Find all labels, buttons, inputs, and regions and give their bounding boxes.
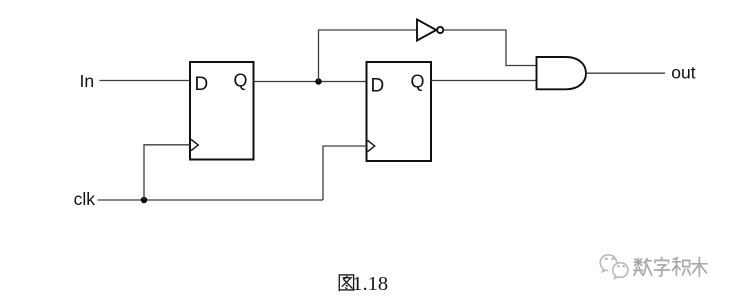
inverter U3 bubble [437, 27, 443, 33]
D flip-flop U2 [367, 62, 432, 161]
wire: U1 Q to U2 D [254, 81, 367, 83]
wire: clk junction up to U1 clock pin [144, 145, 190, 200]
char 数 [637, 259, 639, 267]
node: junction dot on Q1 net [315, 78, 321, 84]
U2 clock input triangle [368, 140, 375, 151]
node: clk junction dot [141, 197, 147, 203]
svg-text:Q: Q [234, 71, 248, 91]
wire: In to U1 pin D [100, 80, 191, 82]
svg-text:clk: clk [74, 189, 96, 209]
U1 clock input triangle [191, 139, 198, 150]
char 木 [698, 257, 700, 276]
wire: AND output to out [586, 72, 665, 74]
svg-text:D: D [371, 76, 385, 97]
watermark text 数字积木 [634, 257, 707, 276]
inverter U3 [417, 20, 436, 41]
svg-text:In: In [80, 71, 95, 91]
wire: clk horizontal net [98, 199, 324, 201]
svg-text:Q: Q [411, 72, 425, 92]
D flip-flop U1 [190, 62, 254, 160]
caption: character 图 (drawn) [339, 275, 354, 292]
watermark logo (two chat bubbles) [600, 255, 628, 279]
wire: clk corner up to U2 clock pin [323, 146, 367, 200]
svg-text:D: D [195, 74, 209, 95]
wire: U2 Q to AND input B [431, 80, 537, 82]
char 积 [673, 258, 677, 259]
AND gate U4 [537, 57, 587, 89]
wire: junction up and right to inverter input [319, 30, 418, 82]
wire: inverter output to AND input A [444, 30, 537, 66]
char 字 [661, 258, 663, 260]
svg-text:1.18: 1.18 [352, 273, 388, 295]
svg-text:out: out [671, 63, 695, 83]
